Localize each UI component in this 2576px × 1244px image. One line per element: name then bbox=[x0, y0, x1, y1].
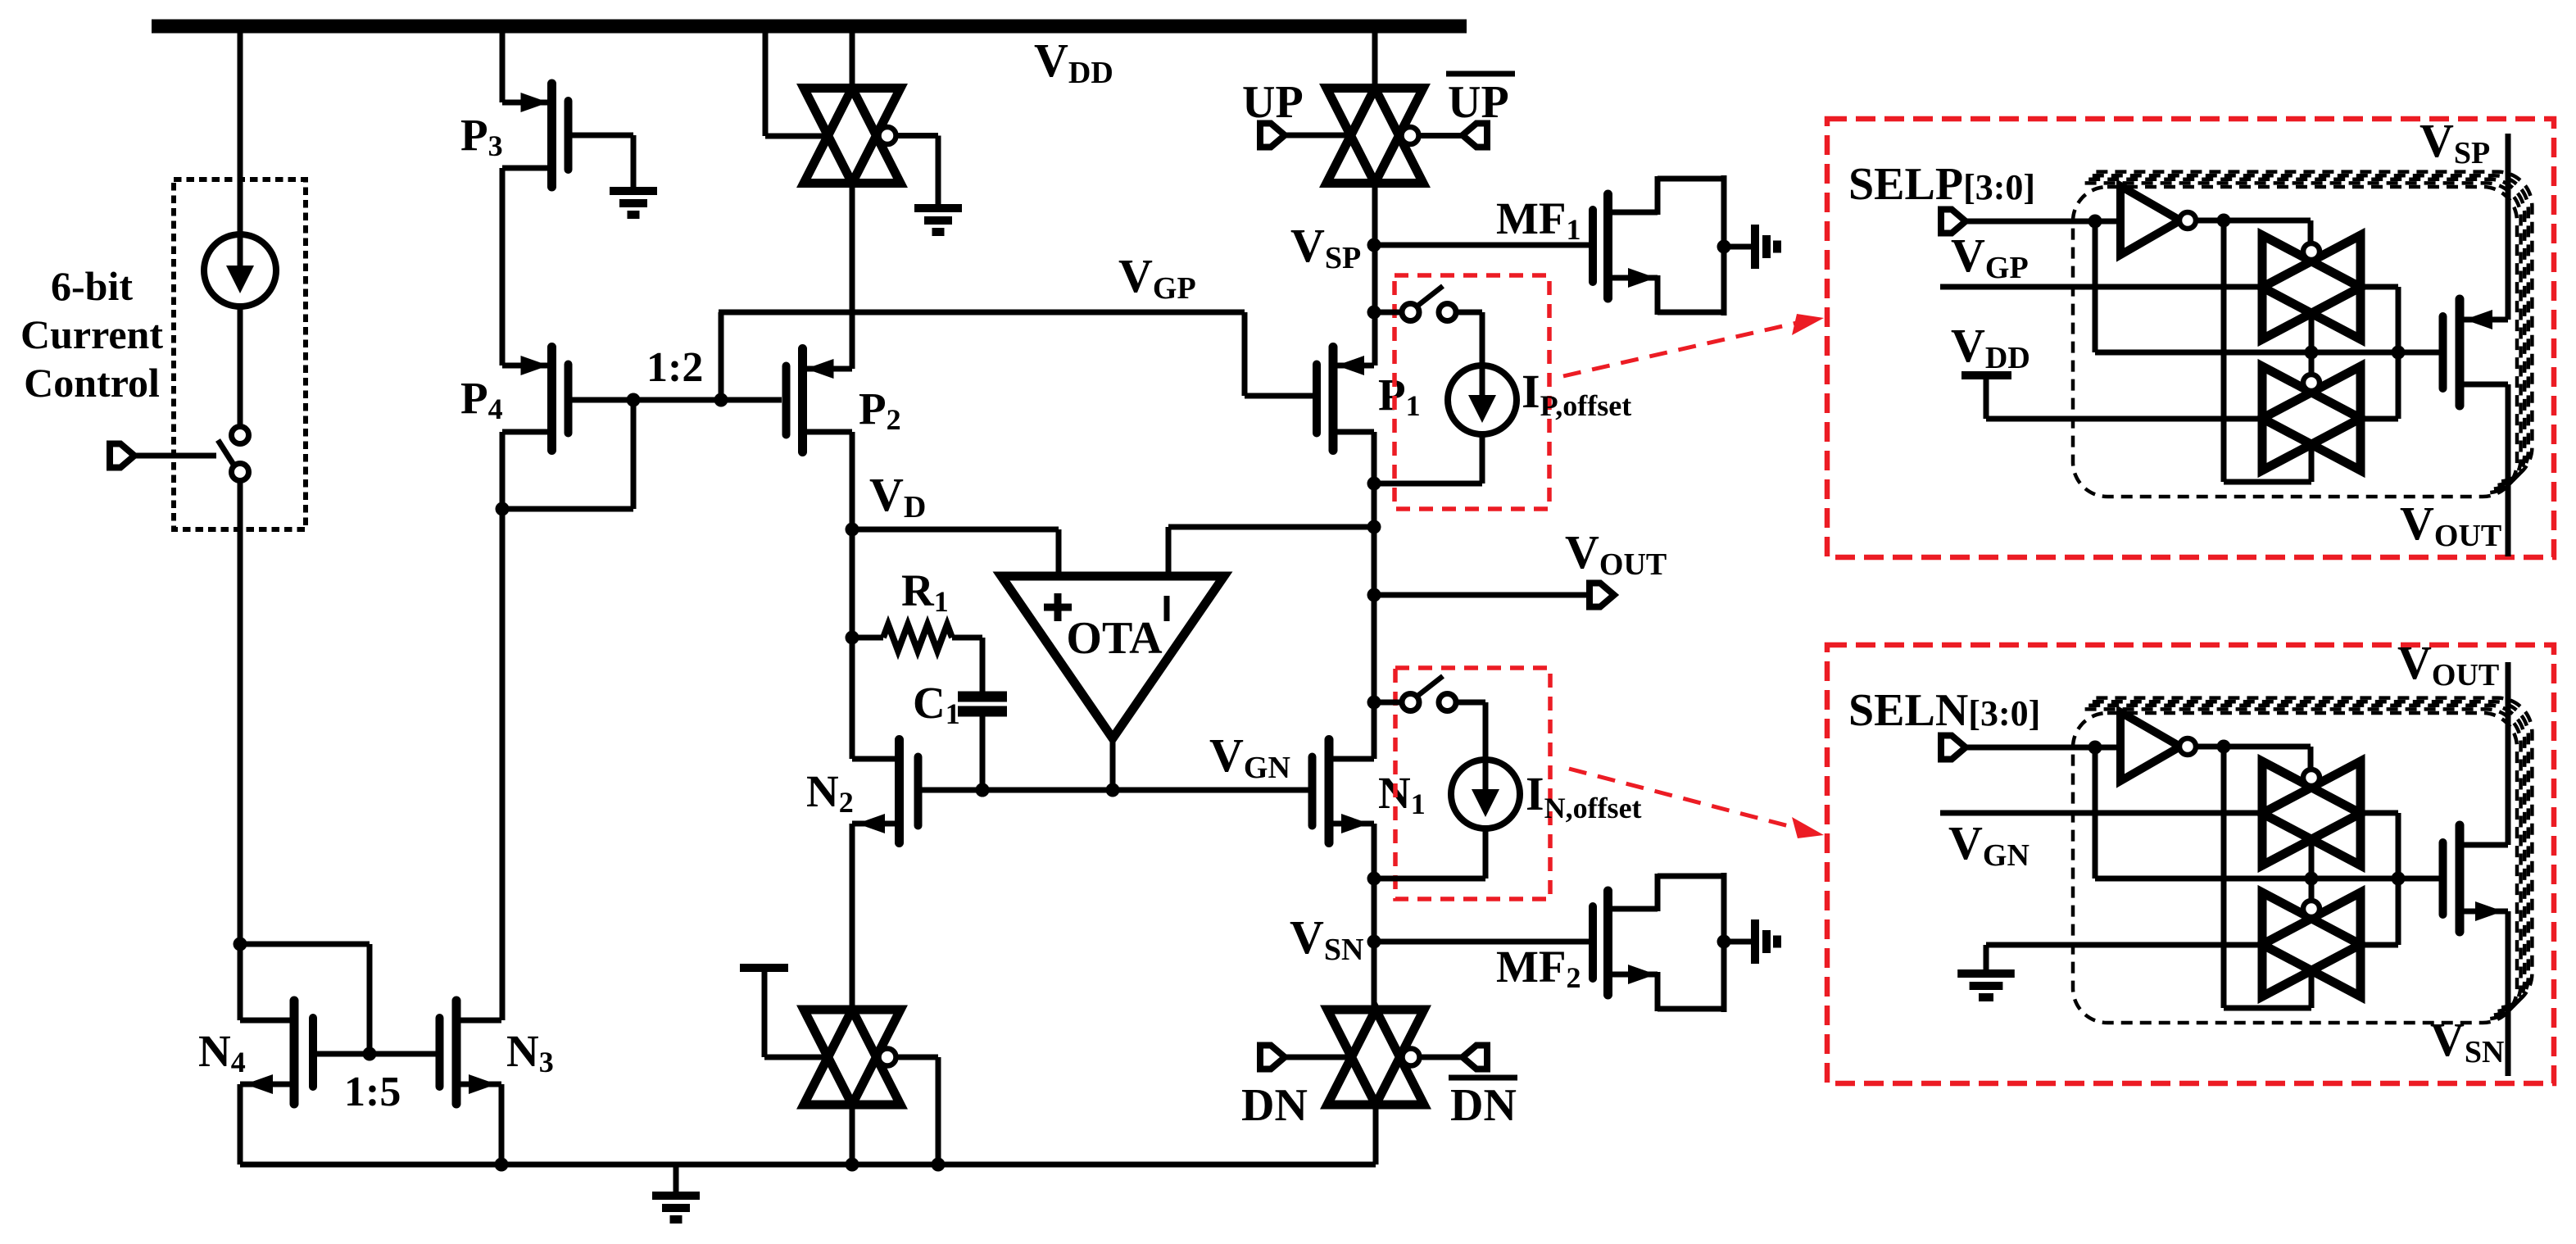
wire bbox=[852, 635, 883, 641]
wire VSP to MF1 bbox=[1374, 243, 1589, 248]
wire VGN bus bbox=[923, 788, 1308, 793]
node VSP bbox=[1367, 238, 1381, 252]
wire bbox=[1480, 434, 1485, 484]
node bbox=[2392, 346, 2406, 360]
transistor P2 bbox=[782, 349, 853, 452]
wire UP TG to P1 source bbox=[1372, 181, 1378, 365]
transistor N1 bbox=[1308, 740, 1374, 843]
wire DN-bar control bbox=[1418, 1055, 1462, 1060]
svg-text:Control: Control bbox=[24, 360, 160, 406]
wire TG1 to P2 source bbox=[850, 181, 855, 369]
transmission gate TGPb bbox=[2262, 366, 2361, 470]
dashed box current control bbox=[174, 179, 306, 529]
node VOUT tap bbox=[1367, 588, 1381, 602]
inverter UN bbox=[2120, 712, 2180, 781]
wire bbox=[1286, 133, 1350, 138]
svg-text:OTA: OTA bbox=[1066, 613, 1163, 664]
ground MF1 (rotated) bbox=[1755, 225, 1777, 269]
wire bbox=[1966, 219, 2120, 225]
svg-text:UP: UP bbox=[1242, 77, 1304, 128]
wire bbox=[2197, 218, 2311, 224]
wire VSP bbox=[2506, 134, 2511, 320]
wire select control bbox=[2093, 221, 2098, 352]
transistor N4 bbox=[240, 1001, 370, 1104]
wire DN TG to ground rail bbox=[1373, 1103, 1379, 1165]
wire N2 source to TG2 bbox=[850, 824, 855, 1011]
wire P4 gate tie bbox=[631, 400, 637, 509]
svg-text:UP: UP bbox=[1448, 77, 1509, 128]
svg-text:DN: DN bbox=[1450, 1080, 1517, 1131]
port VOUT bbox=[1590, 583, 1614, 607]
node MF1 tie bbox=[1717, 240, 1731, 254]
transmission gate UP bbox=[1327, 89, 1423, 184]
wire bbox=[980, 716, 986, 790]
ground MF2 (rotated) bbox=[1755, 919, 1777, 964]
port SELN bbox=[1941, 736, 1966, 760]
node MF2 tie bbox=[1717, 935, 1731, 949]
svg-text:1:5: 1:5 bbox=[344, 1069, 401, 1115]
wire OTA- input bbox=[1166, 527, 1172, 576]
red arrow to SELN bbox=[1569, 769, 1795, 828]
node inverter out bbox=[2217, 214, 2231, 228]
wire bbox=[952, 635, 982, 641]
port DN-bar bbox=[1463, 1046, 1487, 1069]
wire switch to N4 drain bbox=[238, 479, 243, 1020]
wire TG control stubs bbox=[2309, 311, 2315, 352]
svg-text:Current: Current bbox=[20, 311, 163, 357]
wire bbox=[1966, 745, 2120, 751]
wire ground stub bbox=[673, 1165, 679, 1193]
svg-text:SELN[3:0]: SELN[3:0] bbox=[1848, 685, 2040, 736]
wire VOUT bbox=[1374, 592, 1589, 598]
supply tick VDD bbox=[1961, 371, 2011, 379]
transistor MP sel bbox=[2443, 299, 2509, 406]
red arrow to SELP bbox=[1563, 323, 1797, 376]
svg-text:6-bit: 6-bit bbox=[51, 263, 133, 309]
dashed cell stack bbox=[2073, 698, 2532, 1023]
transistor P1 bbox=[1308, 347, 1374, 451]
port switch control bbox=[110, 444, 134, 468]
dashed red box IP offset bbox=[1395, 275, 1549, 509]
op-amp OTA bbox=[1001, 576, 1224, 738]
ground bbox=[610, 191, 657, 215]
transmission gate TGPa bbox=[2262, 235, 2361, 339]
current source IP,offset bbox=[1448, 365, 1517, 434]
OTA plus input bbox=[1044, 604, 1072, 611]
transistor N3 bbox=[370, 1001, 501, 1104]
node P4 drain tie bbox=[496, 502, 510, 516]
wire UP-bar control bbox=[1417, 133, 1462, 138]
node bbox=[1367, 477, 1381, 491]
wire TG control stubs bbox=[2309, 838, 2315, 879]
wire rail to TG1 bbox=[850, 33, 855, 90]
wire bbox=[1483, 829, 1489, 879]
node C1 bottom bbox=[976, 783, 990, 797]
wire OTA output bbox=[1110, 738, 1116, 790]
transistor P3 bbox=[502, 84, 633, 187]
svg-text:1:2: 1:2 bbox=[646, 344, 703, 391]
node bbox=[2305, 872, 2319, 886]
node bbox=[1367, 306, 1381, 320]
wire P1 drain to N1 drain bbox=[1372, 432, 1377, 759]
wire bbox=[1724, 939, 1752, 945]
transistor N2 bbox=[852, 740, 982, 843]
transmission gate TGNb bbox=[2262, 892, 2361, 997]
wire bbox=[2361, 284, 2398, 290]
wire bbox=[1286, 1055, 1351, 1060]
node inverter out bbox=[2217, 740, 2231, 754]
wire bbox=[1455, 310, 1482, 316]
wire TG2 right control bbox=[894, 1055, 938, 1060]
node OTA- tap bbox=[1367, 520, 1381, 534]
dashed red box SELN bbox=[1827, 645, 2554, 1083]
node bbox=[1367, 872, 1381, 886]
node current mirror gate tap bbox=[234, 938, 247, 951]
dashed cell stack bbox=[2073, 172, 2532, 497]
node N3/N4 gate bbox=[363, 1047, 377, 1061]
wire bbox=[2361, 416, 2398, 422]
wire select control bbox=[2093, 747, 2098, 879]
wire rail to UP TG bbox=[1372, 33, 1378, 90]
wire VOUT bbox=[2506, 662, 2511, 845]
wire bbox=[238, 306, 243, 427]
current source IN,offset bbox=[1451, 760, 1520, 829]
wire bbox=[1724, 244, 1752, 250]
port DN bbox=[1260, 1046, 1285, 1069]
capacitor C1 bbox=[958, 697, 1007, 711]
wire TG2 to ground rail bbox=[850, 1103, 855, 1165]
node bbox=[2088, 741, 2102, 755]
port SELP bbox=[1941, 210, 1966, 234]
wire inverted control bbox=[2221, 220, 2227, 482]
moscap MF1 bbox=[1593, 175, 1724, 316]
node VGP tap bbox=[714, 393, 728, 407]
wire VGP in bbox=[1940, 284, 2262, 290]
wire bbox=[1374, 700, 1403, 706]
port UP bbox=[1260, 124, 1285, 148]
wire VDD rail bbox=[152, 20, 1467, 34]
OTA minus input bbox=[1164, 596, 1170, 621]
node VSN bbox=[1367, 935, 1381, 949]
wire N4 source to ground rail bbox=[238, 1084, 243, 1165]
transmission gate DN bbox=[1327, 1010, 1424, 1105]
switch IP bbox=[1402, 286, 1456, 321]
ground main bbox=[652, 1196, 700, 1219]
switch IN bbox=[1402, 676, 1456, 711]
wire VD to OTA+ bbox=[852, 527, 1059, 533]
node P4 gate bbox=[627, 393, 641, 407]
node bbox=[495, 1158, 509, 1172]
wire VGN in bbox=[1940, 810, 2262, 816]
transmission gate TGNa bbox=[2262, 761, 2361, 865]
node bbox=[932, 1158, 946, 1172]
node OTA out bbox=[1106, 783, 1120, 797]
inverter UP bbox=[2120, 186, 2180, 255]
wire bbox=[2197, 744, 2311, 750]
wire bbox=[2361, 942, 2398, 948]
wire VOUT bbox=[2506, 384, 2511, 556]
current source I bias bbox=[204, 234, 276, 306]
node bbox=[2088, 215, 2102, 229]
ground SELN bbox=[1957, 974, 2015, 997]
wire inverted control bbox=[2221, 747, 2227, 1008]
wire N3 source to ground rail bbox=[499, 1084, 505, 1165]
wire TG1 left control from VDD bbox=[763, 33, 769, 136]
wire TG1 right control bbox=[895, 133, 938, 138]
node bbox=[2305, 346, 2319, 360]
transistor P4 bbox=[502, 347, 633, 451]
wire P3 drain to P4 source bbox=[500, 168, 506, 365]
transmission gate TG2 bottom bbox=[804, 1010, 900, 1105]
dashed red box IN offset bbox=[1395, 668, 1550, 899]
wire P3 source from rail bbox=[500, 33, 506, 102]
node bbox=[846, 1158, 859, 1172]
resistor R1 bbox=[883, 624, 952, 651]
node VD bbox=[846, 523, 859, 537]
wire VGP bbox=[719, 312, 724, 402]
wire P4 drain down to N3 drain bbox=[500, 432, 506, 1020]
ground tick bbox=[1986, 942, 2262, 948]
wire P2 drain to N2 drain (VD) bbox=[850, 432, 855, 759]
dashed red box SELP bbox=[1827, 119, 2554, 557]
wire N1 source to DN TG bbox=[1372, 824, 1377, 1011]
node bbox=[1367, 696, 1381, 710]
transistor MN sel bbox=[2443, 825, 2509, 932]
wire VSN to MF2 bbox=[1374, 939, 1589, 945]
wire bbox=[238, 33, 243, 236]
wire bbox=[135, 453, 216, 459]
supply tick TG2 control bbox=[740, 964, 788, 972]
node R1 tap bbox=[846, 631, 859, 645]
node bbox=[2392, 872, 2406, 886]
wire bbox=[1374, 310, 1403, 316]
transmission gate TG1 top bbox=[804, 89, 900, 184]
wire mirror gate tie bbox=[240, 942, 370, 947]
svg-text:SELP[3:0]: SELP[3:0] bbox=[1848, 159, 2035, 210]
wire bbox=[1455, 700, 1485, 706]
wire gate bus P4-P2 bbox=[633, 397, 782, 403]
svg-text:DN: DN bbox=[1241, 1080, 1308, 1131]
wire ground rail bbox=[240, 1162, 1376, 1168]
port UP-bar bbox=[1463, 124, 1487, 148]
ground TG1 control bbox=[914, 208, 962, 232]
switch S1 bbox=[218, 427, 249, 481]
moscap MF2 bbox=[1593, 873, 1724, 1012]
wire bbox=[2361, 810, 2398, 816]
wire P3 gate to ground bbox=[631, 135, 637, 188]
node bbox=[976, 783, 990, 797]
wire VSN bbox=[2506, 911, 2511, 1076]
